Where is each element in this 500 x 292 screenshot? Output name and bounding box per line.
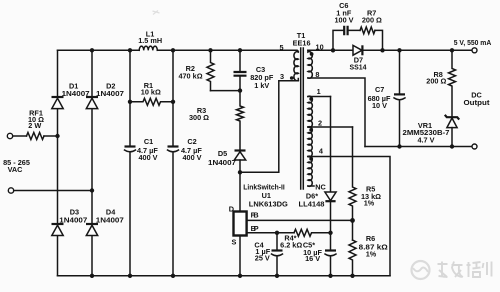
- diode D1: [52, 82, 90, 109]
- svg-text:10 kΩ: 10 kΩ: [141, 87, 161, 96]
- wire FB line: [247, 219, 353, 221]
- diode D7: [350, 45, 368, 71]
- svg-text:C2: C2: [187, 137, 196, 146]
- wire bottom rail: [58, 275, 391, 277]
- output terminal +: [472, 48, 477, 53]
- transformer core: [301, 48, 304, 189]
- svg-text:C7: C7: [375, 85, 384, 94]
- svg-text:BP: BP: [251, 224, 259, 233]
- svg-text:S: S: [231, 238, 236, 247]
- node VR1 bottom: [450, 144, 454, 148]
- watermark text: [438, 262, 492, 278]
- svg-text:10 V: 10 V: [372, 101, 387, 110]
- wire top rail left: [58, 49, 140, 51]
- label DC Output: [464, 90, 491, 107]
- transformer secondary winding 10-8: [308, 50, 312, 78]
- svg-text:1N4007: 1N4007: [208, 158, 236, 167]
- zener VR1: [403, 115, 460, 147]
- svg-text:1N4007: 1N4007: [96, 89, 124, 98]
- input terminal L: [7, 133, 12, 138]
- node C3 top: [238, 48, 242, 52]
- transformer winding 1-2: [308, 96, 312, 127]
- svg-text:Output: Output: [464, 98, 491, 107]
- svg-text:LNK613DG: LNK613DG: [249, 200, 288, 209]
- diode D2: [86, 82, 124, 109]
- wire BP line: [247, 232, 294, 234]
- node R1 left: [128, 100, 132, 104]
- wire term1 to RF1: [13, 135, 27, 137]
- svg-text:6.2 kΩ: 6.2 kΩ: [280, 241, 302, 250]
- artifact smudge top: [153, 11, 160, 15]
- node term2/D2 junction: [90, 188, 94, 192]
- svg-text:2: 2: [318, 119, 322, 128]
- node drain junction: [238, 170, 242, 174]
- node L1 right: [171, 48, 175, 52]
- svg-text:1%: 1%: [364, 199, 375, 208]
- svg-text:D: D: [229, 204, 234, 213]
- NC stub: [308, 185, 314, 187]
- node R1 right: [171, 100, 175, 104]
- capacitor C6: [334, 1, 353, 35]
- wire snubber branch: [333, 30, 383, 50]
- wire D2/D4 column: [91, 50, 93, 275]
- svg-text:470 kΩ: 470 kΩ: [178, 71, 202, 80]
- svg-text:25 V: 25 V: [255, 254, 270, 263]
- capacitor C4: [254, 233, 282, 276]
- transformer T1 primary winding: [293, 31, 311, 81]
- svg-text:3: 3: [280, 72, 284, 81]
- diode D6: [299, 191, 337, 233]
- svg-text:200 Ω: 200 Ω: [362, 16, 382, 25]
- wire C2 column: [172, 50, 174, 275]
- resistor R8: [426, 50, 455, 116]
- input terminal N: [8, 188, 13, 193]
- node R8 top: [450, 48, 454, 52]
- node R4/C5/D6 junction: [328, 231, 332, 235]
- svg-text:EE16: EE16: [293, 38, 311, 47]
- wire S pin to bottom rail: [239, 236, 241, 276]
- svg-text:VAC: VAC: [8, 165, 24, 174]
- wire D1/D3 column: [57, 50, 59, 275]
- resistor R4: [280, 229, 330, 249]
- label 85-265 VAC: [3, 158, 30, 174]
- svg-text:300 Ω: 300 Ω: [189, 113, 209, 122]
- node D4 bottom rail: [90, 274, 94, 278]
- svg-text:5: 5: [279, 43, 283, 52]
- node snubber left: [331, 48, 335, 52]
- pin 8 wire: [308, 78, 365, 147]
- svg-text:1 kV: 1 kV: [254, 81, 269, 90]
- wire drain to primary pin 3: [240, 81, 298, 173]
- wire term2 to D2/D4 column: [14, 190, 92, 192]
- node C2 bottom: [171, 274, 175, 278]
- wire secondary top rail: [308, 49, 472, 51]
- svg-text:SS14: SS14: [350, 62, 368, 71]
- svg-text:1N4007: 1N4007: [59, 215, 87, 224]
- op chip U1 LNK613DG box: [229, 204, 259, 246]
- wire C1 column: [129, 50, 131, 275]
- resistor R2: [178, 50, 214, 90]
- svg-text:5 V, 550 mA: 5 V, 550 mA: [454, 38, 492, 47]
- svg-text:16 V: 16 V: [305, 254, 320, 263]
- node S bottom: [238, 274, 242, 278]
- svg-text:D5: D5: [218, 149, 227, 158]
- capacitor C3: [234, 50, 274, 90]
- wire R2 bottom to C3 node: [211, 90, 241, 92]
- transformer winding 2-4: [308, 127, 312, 157]
- capacitor C1: [125, 137, 159, 162]
- svg-text:1N4007: 1N4007: [62, 89, 90, 98]
- resistor R1: [130, 81, 173, 105]
- svg-text:400 V: 400 V: [182, 153, 201, 162]
- resistor RF1: [27, 108, 45, 139]
- resistor R7: [360, 8, 382, 33]
- inductor L1: [138, 30, 162, 51]
- diode D5: [208, 149, 246, 211]
- svg-text:1: 1: [317, 87, 321, 96]
- wire RF1 to bridge: [44, 135, 58, 137]
- svg-text:C1: C1: [144, 137, 153, 146]
- node L1 left: [128, 48, 132, 52]
- watermark logo: [412, 261, 430, 279]
- pin 1 wire: [308, 96, 331, 98]
- node BP/C4 junction: [275, 231, 279, 235]
- node clamp junction: [238, 88, 242, 92]
- secondary phase dot w1: [310, 52, 314, 56]
- svg-text:2 W: 2 W: [28, 121, 41, 130]
- node D2 top rail: [90, 48, 94, 52]
- resistor R5: [349, 127, 381, 240]
- node C7 top: [397, 48, 401, 52]
- diode D4: [86, 207, 124, 235]
- secondary phase dot w2: [309, 97, 313, 101]
- svg-text:1N4007: 1N4007: [96, 215, 124, 224]
- svg-text:8: 8: [315, 70, 319, 79]
- pin 2 wire: [308, 126, 353, 128]
- wire D6 column from pin1: [330, 97, 332, 193]
- transformer winding 4-NC: [308, 156, 312, 186]
- svg-text:200 Ω: 200 Ω: [426, 77, 446, 86]
- node C1 bottom: [128, 274, 132, 278]
- pin 4 wire: [308, 157, 390, 276]
- svg-text:LL4148: LL4148: [299, 200, 325, 209]
- svg-text:400 V: 400 V: [138, 153, 157, 162]
- secondary phase dot w4: [309, 157, 313, 161]
- node RF1/D1 junction: [55, 134, 59, 138]
- svg-text:FB: FB: [251, 211, 259, 220]
- secondary phase dot w3: [309, 128, 313, 132]
- diode D3: [52, 207, 88, 235]
- capacitor C7: [368, 50, 405, 146]
- resistor R3: [189, 91, 244, 150]
- node FB divider junction: [350, 218, 355, 223]
- resistor R6: [349, 234, 388, 276]
- svg-text:1.5 mH: 1.5 mH: [138, 36, 162, 45]
- node C7 bottom: [397, 144, 401, 148]
- primary phase dot: [290, 76, 294, 80]
- node C5 bottom: [328, 274, 332, 278]
- node R6 bottom: [350, 274, 354, 278]
- svg-text:1%: 1%: [366, 250, 377, 259]
- capacitor C2: [168, 137, 203, 162]
- node R2 top: [208, 48, 212, 52]
- wire output return rail: [365, 146, 472, 148]
- svg-text:4.7 V: 4.7 V: [417, 136, 434, 145]
- node C4 bottom: [275, 274, 279, 278]
- svg-text:100 V: 100 V: [334, 16, 353, 25]
- capacitor C5: [303, 233, 336, 276]
- label LinkSwitch-II: [243, 182, 288, 208]
- node snubber right: [380, 48, 384, 52]
- output terminal -: [472, 144, 477, 149]
- wire top rail mid: [157, 49, 297, 51]
